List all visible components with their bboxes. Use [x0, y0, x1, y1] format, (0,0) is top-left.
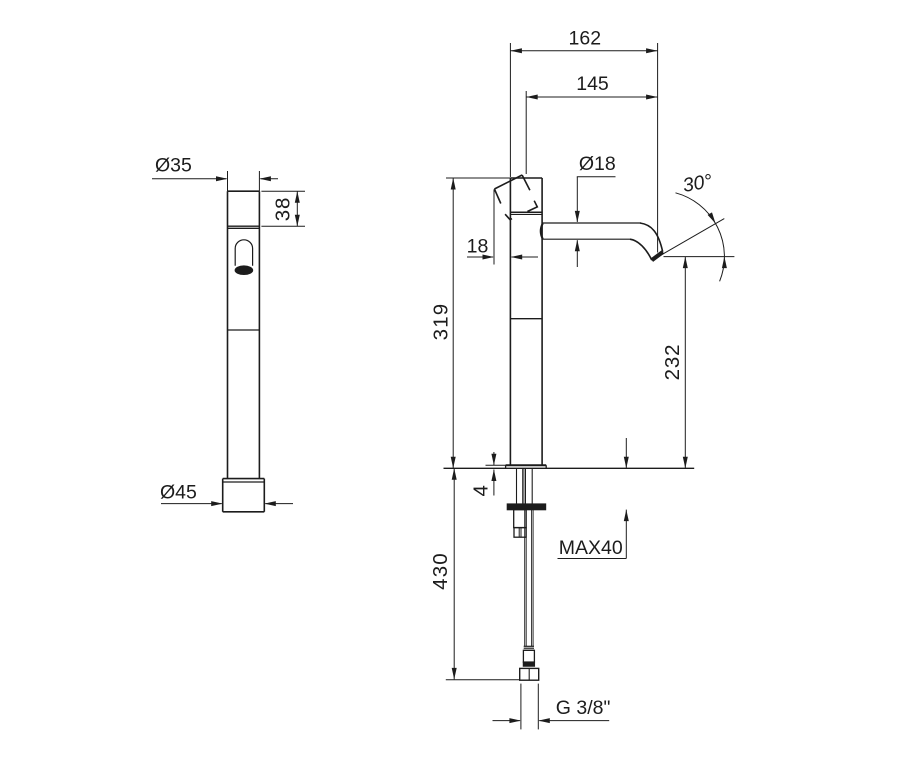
svg-text:319: 319 [429, 303, 452, 341]
svg-text:232: 232 [661, 344, 684, 381]
svg-text:18: 18 [467, 235, 489, 257]
svg-text:Ø18: Ø18 [579, 153, 616, 175]
svg-text:38: 38 [272, 197, 295, 221]
svg-text:G 3/8": G 3/8" [556, 697, 611, 719]
svg-text:4: 4 [470, 485, 493, 496]
svg-text:30°: 30° [681, 170, 714, 197]
svg-text:Ø45: Ø45 [160, 482, 197, 504]
svg-text:MAX40: MAX40 [559, 537, 623, 559]
svg-text:Ø35: Ø35 [155, 155, 192, 177]
svg-text:430: 430 [429, 552, 452, 590]
svg-text:162: 162 [569, 27, 602, 49]
svg-text:145: 145 [576, 73, 609, 95]
